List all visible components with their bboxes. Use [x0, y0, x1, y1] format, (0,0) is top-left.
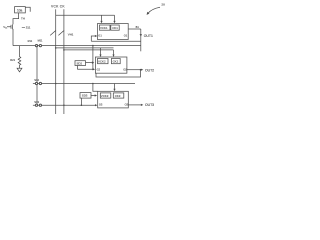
svg-text:R21: R21	[10, 58, 15, 62]
arrowhead OUT1 down	[140, 34, 142, 37]
slash on VCK	[50, 30, 56, 35]
svg-text:M11: M11	[38, 39, 43, 43]
inner box CK2	[111, 59, 120, 64]
inner box CK1	[111, 25, 119, 30]
wire OUT2	[127, 69, 142, 71]
clock line VCK vertical 1	[55, 9, 57, 114]
svg-text:OUT3: OUT3	[145, 103, 154, 107]
terminal circles on line D	[35, 82, 38, 85]
svg-text:G2: G2	[97, 68, 101, 72]
svg-text:O3: O3	[125, 103, 129, 107]
label box 10a	[15, 7, 26, 13]
arrow from C into box2	[113, 50, 115, 56]
small box SD2	[75, 61, 86, 66]
svg-text:G1: G1	[98, 33, 102, 37]
wire fb line under box1	[91, 40, 141, 42]
svg-text:SD2: SD2	[77, 62, 83, 66]
svg-text:S13: S13	[34, 100, 39, 104]
svg-text:G3: G3	[99, 103, 103, 107]
svg-text:SD3: SD3	[82, 94, 88, 98]
svg-text:O1: O1	[124, 33, 128, 37]
svg-text:CK3: CK3	[115, 94, 121, 98]
wire B clock tap to stage2	[56, 47, 114, 49]
clock tap line to box1	[56, 14, 115, 16]
inner box VCK2	[98, 59, 109, 64]
svg-text:B1: B1	[136, 25, 140, 29]
small box SD3	[80, 93, 91, 99]
svg-text:CK1: CK1	[112, 26, 118, 30]
inner box CK3	[113, 93, 124, 98]
wire OUT1 feedback vertical	[140, 29, 142, 51]
svg-text:VCK2: VCK2	[98, 59, 106, 63]
wire main line A	[13, 45, 141, 47]
svg-text:R11: R11	[28, 39, 33, 43]
stage box U1	[98, 24, 129, 40]
stage box U2	[95, 57, 127, 73]
wire transistor source down	[12, 29, 14, 46]
drop arrow 2 into box1	[114, 15, 116, 22]
wire fb down to G2	[92, 46, 94, 70]
svg-text:VCK1: VCK1	[100, 26, 108, 30]
arrow from D into box3 top	[114, 84, 116, 91]
stub from box1 output	[128, 28, 141, 30]
wire OUT2 feedback to box2 bottom	[96, 70, 141, 77]
leader hook from label box	[25, 7, 30, 12]
pointer arrow to 20	[148, 7, 160, 13]
svg-text:311: 311	[26, 26, 31, 30]
inner box VCK3	[100, 93, 111, 98]
vertical input bus through terminals	[36, 46, 38, 106]
arrow from B into box2	[100, 48, 102, 56]
drop arrow 1 into box1	[101, 15, 103, 22]
svg-text:VCK3: VCK3	[101, 94, 109, 98]
slash on CK	[58, 30, 64, 35]
terminal circles on line A	[35, 44, 38, 47]
wire OUT3	[128, 104, 142, 106]
svg-text:20: 20	[161, 3, 165, 7]
inner box VCK1	[100, 25, 111, 30]
wire SD2 out to box2	[86, 62, 94, 64]
leader dash for 311	[22, 26, 25, 28]
svg-text:OUT2: OUT2	[145, 68, 154, 72]
svg-text:CK2: CK2	[113, 59, 119, 63]
wire OUT1 fb line into box1 G input	[91, 36, 96, 41]
wire SD3 bottom to line E	[80, 98, 82, 105]
stage box U3	[98, 91, 129, 108]
ground	[17, 68, 22, 72]
svg-text:TH: TH	[21, 16, 25, 20]
wire label box down to transistor drain	[13, 13, 19, 25]
wire C clock tap to stage2	[64, 49, 114, 51]
arrowhead into box1 G1	[95, 35, 97, 37]
wire line E	[33, 104, 96, 106]
svg-text:OUT1: OUT1	[144, 34, 153, 38]
wire D branch to box3 top left	[93, 84, 98, 92]
wire SD3 to box3	[91, 95, 96, 97]
svg-text:10a: 10a	[17, 9, 23, 13]
wire line D	[33, 83, 135, 85]
svg-text:S12: S12	[34, 78, 39, 82]
svg-text:VCK CK: VCK CK	[51, 4, 65, 8]
node dot OUT2	[140, 69, 142, 71]
terminal circles on line E	[35, 104, 38, 107]
resistor R21	[18, 46, 21, 69]
wire SD2 bottom to G2 row	[76, 66, 78, 70]
transistor T1	[7, 24, 13, 29]
svg-text:O2: O2	[123, 68, 127, 72]
clock line CK vertical 2	[63, 9, 65, 114]
svg-text:VH1: VH1	[68, 32, 74, 36]
wire G2 row	[77, 68, 94, 70]
node dot D at VCK	[55, 83, 57, 85]
node dot E at CK	[63, 104, 65, 106]
